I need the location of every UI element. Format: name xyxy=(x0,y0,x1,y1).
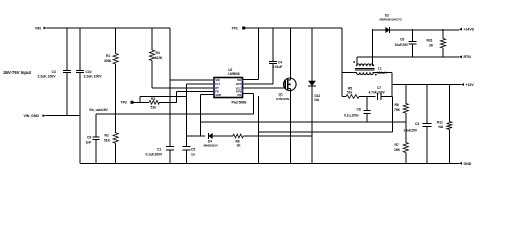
svg-text:C1: C1 xyxy=(157,147,161,151)
inductor L1 primary winding xyxy=(357,66,388,75)
svg-text:0.1uF,100V: 0.1uF,100V xyxy=(146,152,163,156)
wire VIN_GND xyxy=(46,115,81,117)
node GND terminal xyxy=(459,162,472,166)
wire RTN rail xyxy=(357,56,459,58)
svg-text:100uH: 100uH xyxy=(377,71,387,75)
wire RON riser xyxy=(177,92,215,103)
diode D2 xyxy=(372,14,459,34)
wire Q1 drain xyxy=(290,28,292,80)
op-amp U2 LM5008 regulator IC xyxy=(214,68,243,98)
capacitor C1 xyxy=(146,146,175,163)
capacitor C4 xyxy=(243,28,283,84)
svg-text:2.2uF, 100V: 2.2uF, 100V xyxy=(38,74,57,78)
svg-text:R1: R1 xyxy=(106,54,110,58)
svg-text:VIN: VIN xyxy=(35,27,41,31)
svg-text:R11: R11 xyxy=(437,120,443,124)
wire GND stub loop xyxy=(200,95,214,136)
wire R4 to IC pin3 xyxy=(152,87,214,89)
svg-text:+13V: +13V xyxy=(466,83,475,87)
capacitor C10 xyxy=(76,28,102,163)
svg-text:C3: C3 xyxy=(415,122,419,126)
wire +13V rail xyxy=(392,84,461,86)
diode D4 xyxy=(187,133,233,148)
svg-text:15K: 15K xyxy=(394,148,401,152)
wire VIN drop to C1 xyxy=(170,28,214,146)
svg-text:C5: C5 xyxy=(191,147,195,151)
svg-text:Vin_uvlo18V: Vin_uvlo18V xyxy=(89,108,109,112)
svg-text:2.2uF, 100V: 2.2uF, 100V xyxy=(84,74,103,78)
node L1 polarity dots xyxy=(353,61,376,75)
resistor R5 xyxy=(346,87,376,99)
svg-text:RTN: RTN xyxy=(464,55,472,59)
svg-text:10uF,25V: 10uF,25V xyxy=(404,129,418,133)
svg-text:FLT: FLT xyxy=(216,82,221,86)
svg-text:GTN100N: GTN100N xyxy=(276,97,289,101)
wire uvlo / loop net xyxy=(96,113,254,115)
svg-text:R31: R31 xyxy=(427,38,433,42)
svg-text:MMSD914: MMSD914 xyxy=(204,144,218,148)
svg-text:C8: C8 xyxy=(357,107,361,111)
node +14VS terminal xyxy=(459,28,475,32)
wire GND rail xyxy=(80,162,459,164)
svg-text:4.7nF,100V: 4.7nF,100V xyxy=(369,90,386,94)
svg-text:GND: GND xyxy=(464,162,472,166)
node VIN_GND terminal xyxy=(24,114,46,118)
svg-text:51k: 51k xyxy=(347,91,353,95)
svg-text:300k: 300k xyxy=(104,59,111,63)
node +13V terminal xyxy=(461,83,475,87)
svg-text:GND: GND xyxy=(216,93,222,97)
wire SW pin riser xyxy=(243,28,259,80)
svg-text:C3: C3 xyxy=(52,70,56,74)
svg-text:RT: RT xyxy=(216,86,220,90)
capacitor C7 xyxy=(369,86,393,100)
wire VIN rail xyxy=(47,27,171,29)
label Pad 5008 xyxy=(232,100,248,104)
svg-text:MBRA2H100CTG: MBRA2H100CTG xyxy=(380,18,403,22)
transistor Q1 xyxy=(276,78,296,101)
inductor L1 core xyxy=(355,68,375,70)
resistor R11 xyxy=(437,85,452,164)
svg-text:26V-75V Input: 26V-75V Input xyxy=(3,70,31,75)
resistor R6 xyxy=(394,85,408,123)
resistor R31 xyxy=(427,29,446,57)
svg-text:NA: NA xyxy=(315,98,320,102)
svg-text:75K: 75K xyxy=(394,108,401,112)
svg-text:0.1u,100v: 0.1u,100v xyxy=(344,114,359,118)
svg-text:TP2: TP2 xyxy=(121,101,127,105)
svg-text:VIN_GND: VIN_GND xyxy=(24,114,40,118)
label 26V-75V Input xyxy=(3,70,31,75)
wire SW rail xyxy=(245,27,342,29)
wire secondary right riser xyxy=(372,29,374,57)
svg-text:L1: L1 xyxy=(378,66,382,70)
inductor L1 coupled - secondary winding xyxy=(357,57,374,66)
wire snubber return xyxy=(258,97,392,133)
wire TP2 jog xyxy=(140,97,186,103)
svg-text:R6: R6 xyxy=(395,103,399,107)
label Vin_uvlo18V net xyxy=(89,108,109,112)
capacitor C5 xyxy=(183,84,196,163)
wire primary left xyxy=(342,71,357,73)
svg-text:422K: 422K xyxy=(155,56,163,60)
node TP2 test point xyxy=(121,101,134,105)
svg-text:10uF,25V: 10uF,25V xyxy=(395,43,409,47)
node TP1 test point xyxy=(232,27,246,31)
svg-text:R4: R4 xyxy=(156,51,160,55)
svg-text:Pad 500E: Pad 500E xyxy=(232,100,248,104)
resistor R7 xyxy=(394,122,408,163)
capacitor C8 xyxy=(344,97,371,123)
svg-text:TP1: TP1 xyxy=(232,27,238,31)
svg-text:SW: SW xyxy=(237,78,242,82)
svg-text:C4: C4 xyxy=(278,60,282,64)
svg-text:VIN: VIN xyxy=(216,78,220,82)
svg-text:R3: R3 xyxy=(151,97,155,101)
node RTN terminal xyxy=(459,55,471,59)
svg-text:NA: NA xyxy=(439,125,444,129)
resistor R4 xyxy=(149,28,163,88)
svg-text:0.01uF: 0.01uF xyxy=(272,65,282,69)
diode D12 catch NA xyxy=(308,28,320,163)
svg-text:C6: C6 xyxy=(400,37,404,41)
wire FB link xyxy=(200,121,405,123)
svg-text:+14VS: +14VS xyxy=(464,28,475,32)
svg-text:LM5008: LM5008 xyxy=(228,72,240,76)
svg-text:ON: ON xyxy=(237,93,241,97)
capacitor C9 xyxy=(86,114,100,164)
resistor R2 xyxy=(104,114,118,164)
wire SW drop xyxy=(342,28,346,97)
wire gate drive xyxy=(243,87,284,89)
svg-text:1n: 1n xyxy=(191,152,195,156)
resistor R8 xyxy=(233,134,312,147)
wire primary right xyxy=(373,72,393,96)
resistor R3 xyxy=(134,97,177,110)
capacitor C2 output xyxy=(404,85,432,164)
node VIN input terminal xyxy=(35,27,47,31)
wire Q1 source xyxy=(290,88,292,163)
capacitor C3 xyxy=(38,28,72,116)
svg-text:1nF: 1nF xyxy=(86,141,92,145)
svg-text:51K: 51K xyxy=(104,138,111,142)
svg-text:2K: 2K xyxy=(429,43,434,47)
wire IC pin2 xyxy=(187,83,215,85)
svg-text:51k: 51k xyxy=(151,106,157,110)
resistor R1 xyxy=(104,28,118,114)
wire pin4 loop right xyxy=(243,94,254,114)
wire sense drop xyxy=(257,96,259,163)
svg-text:R2: R2 xyxy=(105,134,109,138)
svg-text:BST: BST xyxy=(236,82,241,86)
svg-text:R7: R7 xyxy=(395,143,399,147)
capacitor C6 xyxy=(395,29,417,57)
svg-text:C9: C9 xyxy=(87,136,91,140)
svg-text:Q1: Q1 xyxy=(279,92,283,96)
